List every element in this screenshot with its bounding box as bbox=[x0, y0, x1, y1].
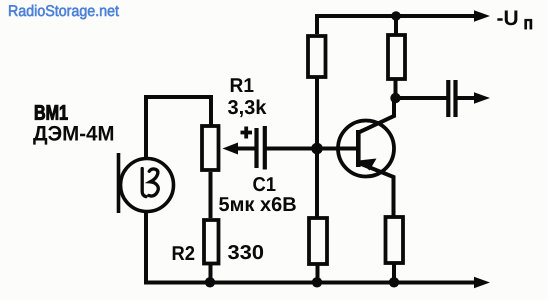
transistor VT1 base bar bbox=[356, 130, 361, 167]
capacitor C1 right plate bbox=[263, 126, 267, 170]
junction dot R2 rail bbox=[205, 277, 215, 287]
watermark RadioStorage.net bbox=[9, 5, 119, 19]
junction dot bias rail bbox=[312, 277, 322, 287]
wire resistor to collector node bbox=[394, 79, 398, 98]
wire to bottom rail bbox=[316, 264, 320, 281]
junction dot base node bbox=[311, 143, 323, 155]
microphone BM1 circle bbox=[121, 159, 174, 212]
label Un subscript bbox=[525, 19, 532, 29]
wire mic bottom to rail bbox=[144, 211, 148, 281]
label R1 bbox=[231, 78, 254, 92]
capacitor C1 wiper arrowhead bbox=[223, 143, 239, 155]
transistor VT1 emitter arrowhead bbox=[359, 159, 377, 171]
microphone BM1 inner glyph bbox=[142, 169, 158, 197]
wire R1 to R2 bbox=[209, 172, 213, 218]
wire base node to base bar bbox=[317, 147, 356, 151]
resistor R1 body bbox=[202, 126, 219, 170]
wire rail to top-right resistor bbox=[394, 16, 398, 35]
label 3,3k bbox=[228, 100, 266, 118]
junction dot collector node bbox=[390, 93, 400, 103]
wire bias chain vertical bbox=[315, 77, 319, 218]
wire arrow to C1 left plate bbox=[234, 147, 255, 151]
label BM1 bbox=[35, 105, 67, 119]
wire emitter resistor to rail bbox=[392, 263, 396, 281]
label 5mk x6V bbox=[219, 197, 296, 211]
resistor bottom-left body bbox=[309, 218, 327, 264]
wire mic top to R1 top bbox=[146, 97, 211, 160]
microphone BM1 left bar bbox=[117, 153, 121, 213]
wire top rail with left corner bbox=[317, 16, 476, 34]
wire collector node to output capacitor bbox=[396, 96, 448, 100]
resistor top-right body bbox=[388, 35, 405, 79]
transistor VT1 circle bbox=[338, 121, 394, 177]
junction dot top rail bbox=[391, 11, 401, 21]
label DEM-4M bbox=[33, 126, 113, 145]
label C1 bbox=[253, 177, 275, 191]
junction dot emitter rail bbox=[389, 277, 399, 287]
bottom rail wire bbox=[144, 281, 476, 285]
wire R2 to bottom rail bbox=[209, 265, 213, 281]
label R2 bbox=[173, 246, 195, 260]
capacitor C2 right plate bbox=[453, 80, 457, 117]
power arrowhead -Un bbox=[474, 10, 490, 22]
transistor VT1 emitter line bbox=[360, 164, 394, 217]
resistor R2 body bbox=[204, 220, 219, 264]
transistor VT1 collector line bbox=[359, 98, 395, 133]
wire C1 right plate to base node bbox=[265, 147, 317, 151]
capacitor C2 left plate bbox=[446, 80, 450, 117]
label -Un bbox=[497, 11, 517, 26]
label 330 bbox=[228, 245, 263, 259]
capacitor C1 plus sign bbox=[241, 127, 253, 139]
resistor bottom-right emitter body bbox=[386, 217, 404, 263]
output arrowhead bbox=[474, 92, 490, 104]
capacitor C1 left plate bbox=[254, 128, 258, 168]
resistor top-left body bbox=[308, 36, 326, 77]
wire output capacitor to arrow bbox=[456, 96, 477, 100]
bottom rail arrowhead bbox=[474, 277, 490, 289]
